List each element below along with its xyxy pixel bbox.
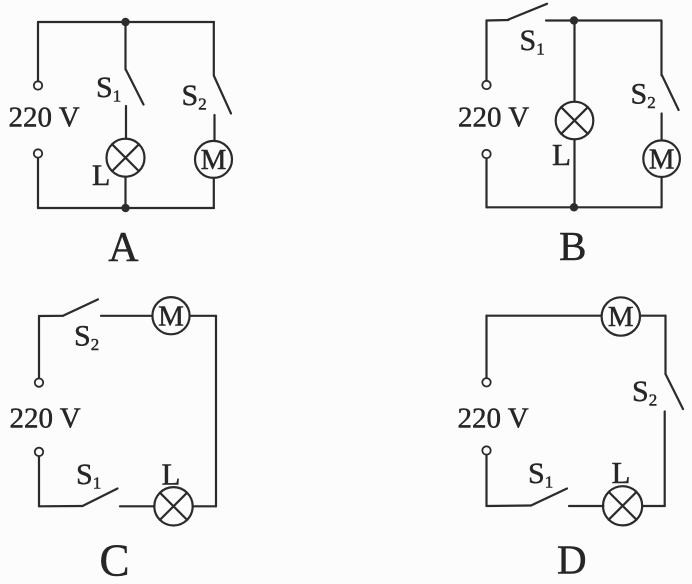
wire: D right lower vertical [664,412,666,507]
wire: B top right segment [546,19,661,21]
node: B bottom junction [570,203,578,211]
svg-text:M: M [649,143,675,175]
wire: C right vertical [215,316,217,507]
wire: D left lower vertical [485,455,487,506]
svg-text:S1: S1 [76,458,101,493]
wire: D top right segment [640,315,666,317]
motor M circuit C [152,297,189,334]
wire: D left upper vertical [485,316,487,378]
wire: A left upper vertical [37,22,39,81]
wire: B between S2 and motor [660,114,662,141]
svg-text:L: L [162,457,181,492]
switch S2 blade (circuit B) [662,75,679,110]
switch S1 blade (circuit B) [509,4,548,20]
wire: A lamp to bottom [124,177,126,208]
node: A top junction [121,18,129,26]
wire: A between S2 and motor [213,115,215,141]
svg-text:S2: S2 [632,375,657,410]
lamp L circuit A [107,139,145,177]
wire: B top left segment [487,19,509,22]
wire: B right upper vertical [660,21,662,76]
wire: B bottom horizontal [487,206,662,208]
svg-text:M: M [158,300,184,332]
motor M circuit B [643,140,680,177]
switch S1 blade (circuit C) [83,489,118,507]
wire: D bottom right segment [642,505,665,507]
wire: B left lower vertical [485,159,487,208]
switch S1 blade (circuit D) [531,489,567,506]
svg-text:M: M [608,301,634,333]
wire: A motor to bottom [213,178,215,208]
svg-text:C: C [99,536,129,584]
wire: A bottom horizontal [38,207,214,209]
svg-text:L: L [92,159,110,192]
wire: B lamp branch upper [573,21,575,102]
wire: C bottom right segment [193,505,216,507]
svg-text:A: A [108,225,139,271]
source terminal (upper) circuit B [482,81,490,89]
wire: D bottom middle segment [569,505,603,507]
wire: D top left segment [487,315,602,317]
svg-text:S1: S1 [96,71,121,106]
wire: A top horizontal [38,21,214,23]
source terminal (upper) circuit D [482,378,490,386]
wire: C top middle segment [101,315,153,317]
wire: A motor branch upper [213,22,215,76]
wire: B lamp to bottom [573,139,575,207]
svg-text:B: B [559,223,586,269]
svg-text:S2: S2 [631,78,656,113]
wire: A lamp branch upper [124,22,126,70]
source terminal (lower) circuit A [34,149,42,157]
lamp L circuit B [556,102,594,140]
svg-text:S1: S1 [528,457,553,492]
wire: B motor to bottom [660,177,662,207]
switch S1 blade (circuit A) [126,70,144,105]
svg-text:L: L [552,137,571,172]
node: B top junction [570,16,578,24]
node: A bottom junction [121,204,129,212]
source terminal (upper) circuit C [35,378,43,386]
lamp L circuit C [154,487,192,525]
motor M circuit A [195,141,232,178]
wire: C bottom left segment [39,505,83,507]
svg-text:M: M [201,144,227,176]
svg-text:220 V: 220 V [458,403,529,435]
svg-text:S2: S2 [182,79,207,114]
wire: C top right segment [190,315,216,317]
wire: B left upper vertical [485,21,487,81]
wire: D bottom left segment [487,504,532,507]
switch S2 blade (circuit D) [666,374,684,409]
svg-text:L: L [612,455,631,490]
wire: C left upper vertical [38,316,40,378]
source terminal (lower) circuit C [35,448,43,456]
wire: D right upper vertical [664,316,666,374]
svg-text:220 V: 220 V [9,102,80,134]
svg-text:D: D [557,537,587,583]
wire: C bottom middle segment [120,505,155,507]
lamp L circuit D [603,486,642,525]
source terminal (upper) circuit A [34,81,42,89]
motor M circuit D [602,297,640,335]
svg-text:S2: S2 [74,320,99,355]
switch S2 blade (circuit C) [63,299,98,315]
wire: C left lower vertical [38,456,40,506]
wire: C top left segment [39,315,63,317]
source terminal (lower) circuit B [482,150,490,158]
source terminal (lower) circuit D [482,446,490,454]
svg-text:220 V: 220 V [458,102,529,134]
svg-text:S1: S1 [520,24,545,59]
wire: A left lower vertical [37,158,39,208]
svg-text:220 V: 220 V [10,403,81,435]
wire: A between S1 and lamp [125,106,127,139]
switch S2 blade (circuit A) [214,76,231,114]
